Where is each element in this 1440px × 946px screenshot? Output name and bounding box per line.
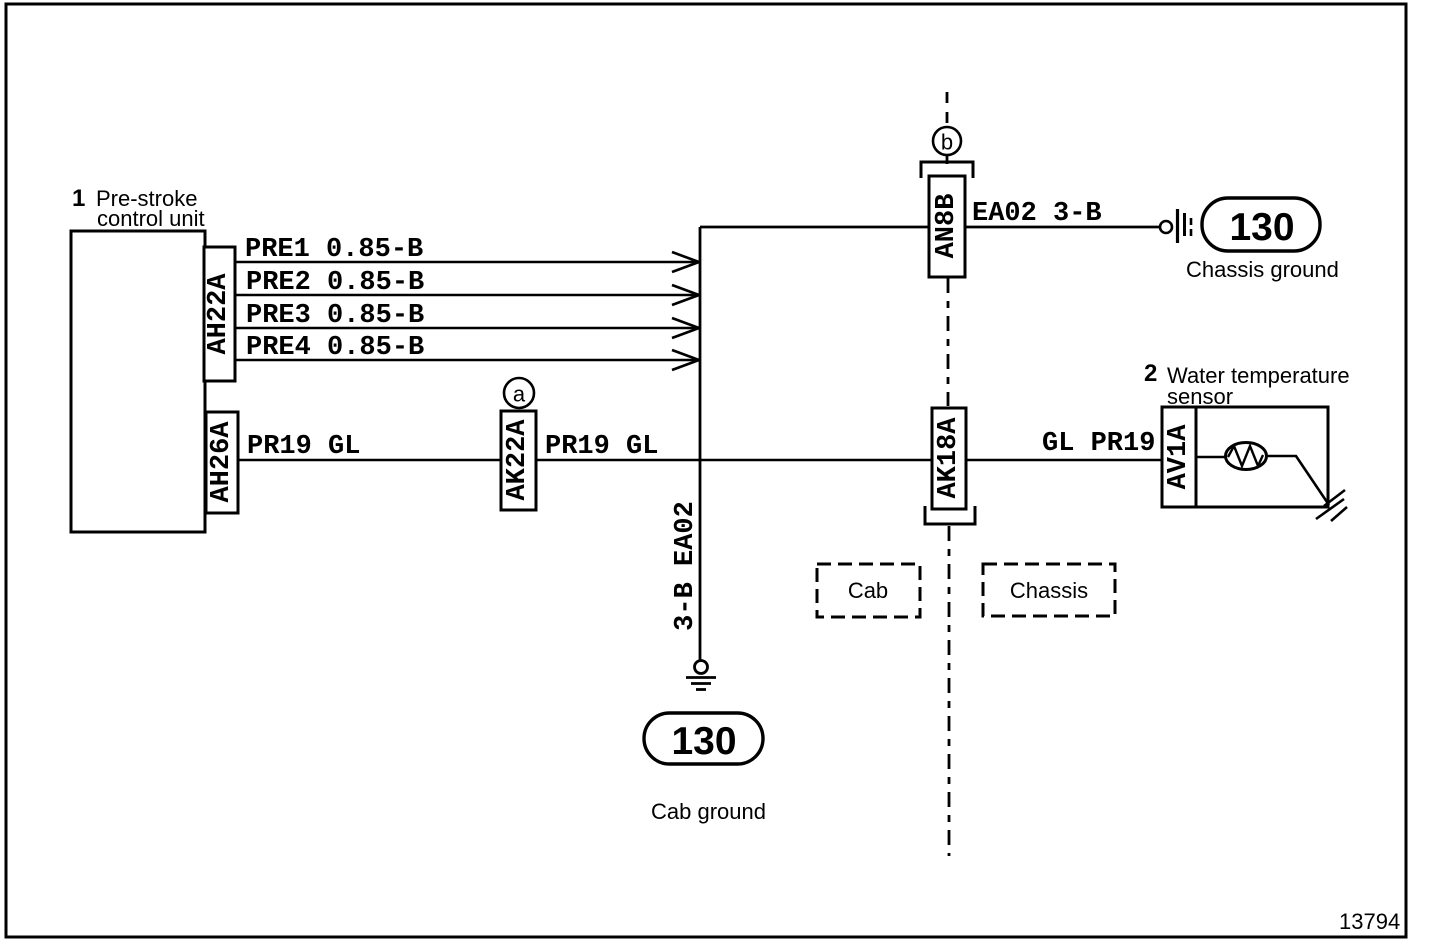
wire GL PR19 (AK18A to sensor) — [966, 459, 1162, 462]
cab/chassis boundary dash line — [947, 92, 949, 856]
svg-text:AV1A: AV1A — [1164, 424, 1194, 490]
marker circle a — [504, 378, 534, 408]
svg-text:2: 2 — [1144, 360, 1157, 387]
svg-text:Chassis ground: Chassis ground — [1186, 257, 1339, 282]
wire EA02 top horizontal to chassis ground — [700, 226, 1160, 229]
wire PRE2 — [235, 268, 699, 305]
bracket above AN8B — [921, 162, 973, 178]
wire PRE1 — [235, 235, 699, 272]
svg-text:GL PR19: GL PR19 — [1042, 429, 1155, 459]
svg-text:AH22A: AH22A — [204, 273, 234, 355]
svg-text:AN8B: AN8B — [932, 194, 962, 259]
svg-text:PR19 GL: PR19 GL — [545, 432, 658, 462]
svg-text:PRE3 0.85-B: PRE3 0.85-B — [246, 301, 424, 331]
svg-text:PRE2 0.85-B: PRE2 0.85-B — [246, 268, 424, 298]
svg-text:130: 130 — [1229, 206, 1294, 249]
svg-text:PR19 GL: PR19 GL — [247, 432, 360, 462]
svg-text:PRE1 0.85-B: PRE1 0.85-B — [245, 235, 423, 265]
zone box Cab — [817, 564, 920, 617]
zone box Chassis — [983, 564, 1115, 616]
svg-text:AK18A: AK18A — [934, 417, 964, 499]
svg-text:130: 130 — [671, 720, 736, 763]
connector AN8B — [929, 176, 965, 277]
svg-text:control unit: control unit — [97, 206, 205, 231]
wire thermistor to case ground — [1266, 456, 1329, 505]
svg-text:EA02 3-B: EA02 3-B — [972, 199, 1102, 229]
connector AH26A — [206, 412, 238, 513]
resistor thermistor — [1226, 443, 1267, 470]
svg-text:13794: 13794 — [1339, 909, 1400, 934]
connector AV1A — [1195, 407, 1198, 507]
svg-text:Cab ground: Cab ground — [651, 799, 766, 824]
marker circle b — [933, 127, 961, 155]
wire EA02 vertical — [699, 227, 702, 660]
wire PRE3 — [235, 301, 699, 338]
svg-text:Cab: Cab — [848, 578, 888, 603]
bracket below AK18A — [925, 506, 975, 524]
svg-text:1: 1 — [72, 185, 85, 212]
control unit 1 — [71, 231, 205, 532]
connector AH22A — [204, 247, 235, 381]
water temperature sensor 2 — [1162, 407, 1328, 507]
wire PR19 GL (AH26A to AK22A) — [237, 459, 501, 462]
svg-text:AH26A: AH26A — [207, 421, 237, 503]
wire PRE4 — [235, 333, 699, 370]
wire to thermistor — [1196, 456, 1226, 459]
connector AK22A — [501, 411, 536, 510]
svg-text:b: b — [941, 130, 953, 155]
wire PR19 GL (AK22A to AK18A) — [536, 459, 932, 462]
svg-text:sensor: sensor — [1167, 384, 1233, 409]
connector AK18A — [932, 408, 966, 509]
terminal 130 cab — [644, 713, 763, 764]
svg-text:AK22A: AK22A — [503, 419, 533, 501]
svg-text:a: a — [513, 382, 526, 407]
cab ground symbol — [686, 661, 716, 690]
terminal 130 chassis — [1202, 198, 1320, 251]
svg-text:3-B EA02: 3-B EA02 — [671, 501, 701, 631]
svg-text:PRE4 0.85-B: PRE4 0.85-B — [246, 333, 424, 363]
svg-text:Chassis: Chassis — [1010, 578, 1088, 603]
chassis ground symbol — [1160, 209, 1191, 243]
case ground hatch — [1316, 490, 1347, 521]
